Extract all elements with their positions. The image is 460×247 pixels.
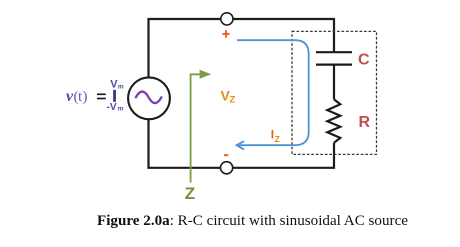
svg-text:C: C: [358, 52, 370, 69]
svg-text:Z: Z: [185, 184, 195, 203]
svg-text:R: R: [359, 114, 371, 131]
svg-text:Z: Z: [230, 94, 236, 105]
svg-text:Z: Z: [275, 134, 280, 144]
svg-text:): ): [83, 89, 88, 105]
svg-text:m: m: [118, 106, 124, 113]
svg-text:-V: -V: [107, 102, 117, 113]
svg-text:Figure 2.0a: R-C circuit with: Figure 2.0a: R-C circuit with sinusoidal…: [97, 213, 408, 229]
svg-text:m: m: [118, 83, 124, 90]
